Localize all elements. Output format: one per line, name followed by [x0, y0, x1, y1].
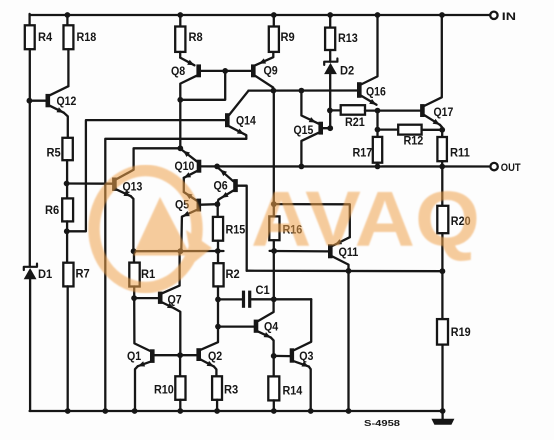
wire Q10-Q5 cascode link	[183, 178, 185, 192]
node R15-R2 junction	[215, 248, 221, 254]
resistor R20	[437, 206, 470, 233]
resistor R17	[353, 137, 383, 163]
resistor R5	[47, 138, 73, 160]
svg-text:Q16: Q16	[366, 84, 386, 98]
wire Q8-Q9 base tie	[201, 70, 251, 72]
wire R12 left	[378, 128, 399, 130]
svg-text:R9: R9	[281, 30, 295, 44]
transistor Q11	[328, 237, 358, 411]
node top rail to R13	[327, 12, 333, 18]
node R16 bottom junction	[270, 248, 277, 254]
wire R1 bottom	[133, 287, 135, 299]
node Q1-Q2 base junction	[177, 352, 183, 358]
wire Q1-Q2 base tie	[154, 354, 196, 356]
wire Q17 base	[378, 109, 421, 111]
wire R6 to R7	[66, 221, 68, 262]
wire Q13 emitter down	[131, 196, 134, 251]
wire Q8 base to collector tie	[180, 71, 225, 100]
wire Q1 emitter down	[135, 366, 138, 411]
node R17 out junction	[375, 164, 381, 170]
wire Q5 base	[201, 203, 218, 206]
transistor Q2	[196, 348, 222, 366]
svg-text:Q7: Q7	[168, 292, 182, 306]
wire R17 top	[376, 111, 378, 137]
node R20-R19 junction	[440, 268, 446, 274]
wire Q15 base	[323, 127, 331, 129]
ground symbol	[431, 411, 454, 425]
wire R21 right	[365, 109, 378, 111]
wire Q9 collector down to R16	[273, 91, 275, 205]
node Q15 emitter junction	[299, 88, 305, 94]
svg-text:R17: R17	[353, 146, 373, 160]
wire Q4 emitter down	[271, 338, 274, 356]
svg-text:Q4: Q4	[264, 320, 278, 334]
node top rail to R8	[177, 12, 183, 18]
wire Q13 collector run	[116, 148, 180, 179]
node R3 rail junction	[214, 408, 220, 414]
svg-text:Q2: Q2	[208, 349, 222, 363]
transistor Q5	[175, 192, 201, 251]
wire left rail middle segment	[29, 49, 31, 266]
resistor R9	[269, 27, 295, 52]
svg-text:Q13: Q13	[123, 180, 143, 194]
node D2-R21 junction	[327, 108, 333, 114]
node Q15 collector out junction	[299, 164, 305, 170]
wire R2 to Q2 collector	[201, 286, 218, 349]
wire Q14 emitter run	[105, 139, 246, 411]
wire left rail lower segment	[29, 279, 31, 411]
resistor R12	[398, 125, 423, 148]
wire R11 bottom	[441, 161, 443, 166]
svg-text:Q14: Q14	[236, 113, 256, 127]
wire left rail upper segment	[28, 14, 30, 25]
transistor Q4	[254, 299, 279, 337]
transistor Q3	[290, 299, 314, 366]
wire R17 bottom	[376, 163, 378, 167]
svg-text:Q6: Q6	[214, 179, 228, 193]
wire Q14 collector to Q16 base	[249, 89, 358, 91]
transistor Q12	[46, 86, 77, 113]
node R14 rail junction	[271, 408, 277, 414]
resistor R18	[64, 25, 97, 49]
diode D2 (zener)	[324, 59, 354, 78]
transistor Q6	[214, 168, 238, 205]
wire Q12 emitter to R5	[64, 113, 68, 138]
wire R15 to R2	[217, 241, 219, 264]
node C1 left junction	[215, 297, 221, 303]
wire R14 bottom	[273, 400, 275, 411]
resistor R21	[341, 105, 365, 129]
svg-text:R11: R11	[450, 146, 470, 160]
svg-text:R10: R10	[154, 383, 174, 397]
transistor Q9	[251, 52, 278, 91]
wire top supply rail	[30, 14, 491, 16]
wire C1 node to Q3 collector	[274, 298, 311, 300]
node Q5 base junction	[215, 201, 221, 207]
wire R16 bottom	[273, 240, 275, 251]
terminal OUT	[490, 162, 520, 174]
wire R10 top	[179, 355, 181, 376]
resistor R16	[269, 216, 302, 240]
resistor R8	[175, 27, 203, 52]
transistor Q13	[112, 178, 142, 197]
wire Q13 base	[67, 182, 112, 184]
svg-text:Q12: Q12	[57, 94, 77, 108]
wire R15 top	[217, 204, 219, 217]
node R7 bottom rail junction	[65, 408, 71, 414]
wire Q2 emitter to R3	[214, 367, 217, 377]
node R10 rail junction	[177, 408, 183, 414]
svg-text:R6: R6	[45, 203, 59, 217]
svg-text:R18: R18	[77, 30, 97, 44]
wire Q17 emitter to R11 node	[440, 125, 442, 137]
wire D2 to R21 node	[329, 74, 331, 128]
svg-text:C1: C1	[256, 283, 270, 297]
svg-text:R5: R5	[47, 146, 61, 160]
transistor Q14	[225, 91, 256, 139]
resistor R19	[437, 319, 471, 345]
capacitor C1	[218, 283, 274, 308]
node R5-R6 junction	[64, 181, 70, 187]
node Q11 emitter crossing junction	[346, 268, 352, 274]
wire R7 to ground rail	[67, 286, 69, 411]
svg-text:R13: R13	[338, 31, 358, 45]
svg-text:IN: IN	[502, 11, 516, 23]
node Q7 base junction	[131, 295, 137, 301]
node Q15 base junction	[327, 125, 333, 131]
wire R16 down chain	[273, 251, 275, 299]
wire bias node horizontal	[133, 250, 223, 252]
watermark AVAQ logo overlay	[94, 171, 480, 288]
wire Q6 base run	[237, 186, 246, 271]
node Q9 collector junction	[271, 88, 277, 94]
wire Q12 base	[30, 100, 46, 102]
svg-text:R14: R14	[283, 383, 303, 397]
resistor R3	[212, 376, 238, 400]
node Q4 base junction	[215, 324, 221, 330]
node R16 top junction	[271, 201, 277, 207]
wire R21 left	[330, 109, 341, 111]
node Q11 emitter rail junction	[346, 408, 352, 414]
resistor R15	[213, 217, 246, 241]
svg-text:D2: D2	[340, 63, 354, 77]
svg-text:Q10: Q10	[175, 159, 195, 173]
transistor Q8	[171, 58, 201, 100]
node Q13 emitter R1 junction	[131, 248, 137, 254]
node top rail to Q16 collector	[375, 12, 381, 18]
wire Q7 base	[134, 297, 158, 299]
resistor R7	[63, 263, 90, 287]
svg-text:R3: R3	[224, 383, 238, 397]
transistor Q10	[175, 149, 202, 178]
resistor R11	[437, 137, 470, 161]
text part number S-4958	[364, 418, 400, 428]
wire Q3 emitter down	[309, 367, 311, 411]
transistor Q15	[294, 91, 324, 167]
svg-text:Q9: Q9	[264, 63, 278, 77]
node Q6 emitter junction	[214, 164, 220, 170]
svg-text:R19: R19	[451, 325, 471, 339]
wire R16 node to Q11 collector	[274, 204, 350, 237]
node Q17 emitter junction	[439, 127, 445, 133]
node top rail to R18	[65, 12, 71, 18]
wire R8 top stub	[179, 15, 181, 27]
wire R18 to Q12 collector	[67, 49, 69, 86]
svg-text:OUT: OUT	[501, 162, 521, 174]
wire R16 top stub	[273, 204, 275, 216]
wire R1 top	[133, 251, 135, 262]
wire Q1 collector up	[134, 298, 150, 351]
node Q8 collector junction	[177, 97, 183, 103]
wire R13 to D2	[329, 50, 331, 62]
svg-text:R4: R4	[38, 30, 52, 44]
node Q16 emitter junction	[375, 108, 381, 114]
node ground rail junction	[440, 408, 446, 414]
transistor Q7	[158, 251, 182, 308]
transistor Q1	[127, 349, 155, 367]
wire R3 bottom	[216, 400, 218, 411]
wire bottom ground rail	[30, 410, 443, 412]
node Q8 base tie junction	[222, 68, 228, 74]
wire R12 right	[422, 129, 443, 131]
resistor R10	[154, 376, 186, 400]
diode D1 (zener)	[24, 264, 53, 281]
wire Q4 emitter to R14	[273, 356, 275, 377]
svg-text:R8: R8	[189, 30, 203, 44]
node R6-R7 junction	[64, 228, 70, 234]
wire output line	[201, 165, 491, 167]
resistor R4	[25, 25, 53, 49]
node Q3 emitter rail junction	[308, 408, 314, 414]
wire OUT to R20	[441, 167, 443, 206]
node Q10 emitter junction	[177, 145, 183, 151]
node R11 out junction	[439, 164, 445, 170]
wire R18 top stub	[66, 15, 68, 25]
resistor R14	[268, 376, 302, 400]
svg-text:Q15: Q15	[294, 123, 314, 137]
node Q14 emitter wire rail junction	[102, 408, 108, 414]
node Q5-Q7 collector junction	[178, 248, 184, 254]
svg-text:R1: R1	[141, 267, 155, 281]
resistor R6	[45, 198, 73, 221]
node R12-R17 junction	[375, 127, 381, 133]
wire R8 to Q8 emitter	[179, 52, 181, 58]
wire Q3 base	[274, 355, 290, 358]
resistor R2	[213, 263, 239, 286]
svg-text:AVAQ: AVAQ	[251, 175, 480, 263]
svg-text:D1: D1	[38, 267, 52, 281]
wire Q11 base	[274, 250, 328, 253]
transistor Q16	[357, 15, 386, 105]
wire Q4 base	[218, 325, 254, 327]
svg-text:S-4958: S-4958	[364, 418, 400, 428]
svg-text:R15: R15	[226, 223, 246, 237]
svg-text:Q3: Q3	[299, 349, 313, 363]
wire R19 bottom	[441, 345, 443, 411]
node Q1 emitter rail junction	[132, 408, 138, 414]
wire R13 top stub	[329, 15, 331, 28]
node top rail to Q17 collector	[439, 12, 445, 18]
svg-text:R7: R7	[76, 267, 90, 281]
wire R20 to R19 node	[441, 233, 443, 319]
svg-text:Q8: Q8	[171, 64, 185, 78]
node C1 right junction	[271, 296, 277, 302]
wire Q7 emitter down	[174, 308, 180, 355]
wire Q8 collector down to Q10	[179, 100, 181, 149]
transistor Q17	[420, 15, 453, 125]
wire Q14 base run	[67, 120, 225, 231]
svg-text:Q1: Q1	[127, 349, 141, 363]
node top rail to R9	[271, 12, 277, 18]
svg-text:Q17: Q17	[434, 105, 454, 119]
svg-text:R12: R12	[404, 133, 424, 147]
node Q3 base junction	[271, 353, 277, 359]
resistor R13	[325, 28, 358, 50]
wire Q6 base to R19 node	[247, 270, 443, 273]
node Q12 base junction on left rail	[27, 98, 33, 104]
resistor R1	[129, 263, 155, 287]
svg-text:R21: R21	[345, 115, 365, 129]
wire R5 to node	[66, 160, 68, 198]
svg-text:R2: R2	[226, 267, 240, 281]
terminal IN	[490, 11, 516, 23]
wire R9 top stub	[273, 15, 275, 27]
wire R10 bottom	[179, 400, 181, 411]
